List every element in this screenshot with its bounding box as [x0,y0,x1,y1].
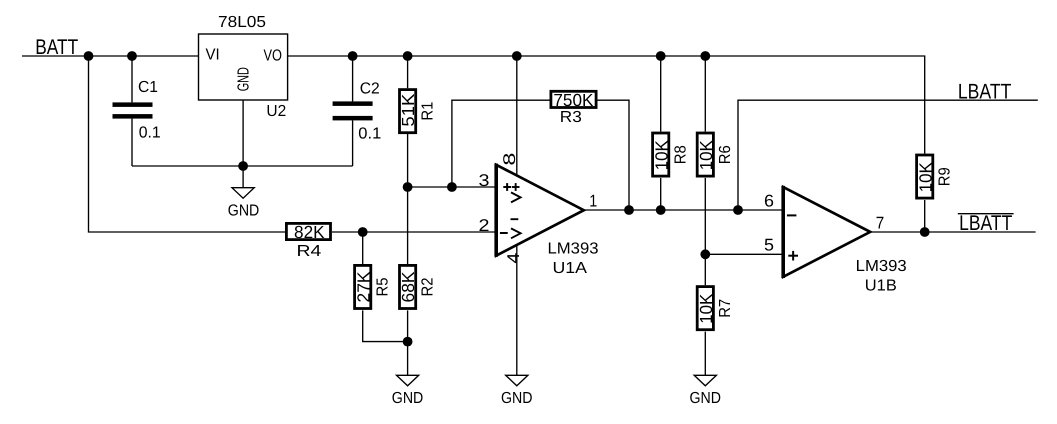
node pin5 junction [700,249,710,259]
node C2 top junction [348,51,358,61]
wire R1 top lead [407,56,409,88]
svg-text:GND: GND [228,202,259,219]
ground symbol under U1A pin 4 [506,375,528,386]
node ground rail junction [238,161,248,171]
wire R7 bottom lead to GND [704,332,706,376]
wire R6 bottom lead crossing output rail [704,178,706,254]
svg-text:5: 5 [764,236,774,255]
svg-text:10K: 10K [915,162,935,192]
wire R7 top lead [704,254,706,285]
wire R5 bottom lead [363,310,408,341]
svg-text:2: 2 [479,216,490,235]
wire C1 top lead [131,56,133,102]
regulator U2 box [199,34,288,100]
svg-text:LM393: LM393 [856,258,907,275]
svg-text:10K: 10K [696,293,716,323]
ground symbol under U2 [232,188,254,199]
svg-text:1: 1 [589,192,597,211]
svg-text:LM393: LM393 [548,240,599,257]
svg-text:R8: R8 [672,145,689,164]
U1B plus input marker [788,251,798,261]
resistor R1 [400,90,416,133]
wire R9 bottom lead [924,200,926,232]
svg-text:3: 3 [479,171,490,190]
wire LBATT riser and rail [738,100,1038,210]
wire R5 top lead [362,232,364,264]
svg-text:8: 8 [500,153,519,166]
svg-text:R4: R4 [297,243,322,260]
wire ground rail C1 to C2 [132,165,353,167]
svg-text:R7: R7 [717,299,734,318]
wire BATT rail left segment [22,55,199,57]
svg-text:78L05: 78L05 [218,14,266,31]
node A junction R1/R2 [403,182,413,192]
svg-text:C2: C2 [360,81,380,98]
svg-text:VI: VI [206,47,220,64]
svg-text:R9: R9 [936,167,953,186]
svg-text:R3: R3 [560,109,582,126]
svg-text:R6: R6 [717,145,734,164]
svg-text:LBATT: LBATT [959,211,1012,235]
wire C1 bottom lead [131,119,133,166]
U1B minus input marker [787,214,797,216]
wire U1A pin 8 riser [516,56,518,176]
svg-text:27K: 27K [353,271,373,302]
svg-text:BATT: BATT [35,35,78,59]
ground symbol under R2/R5 [397,375,419,386]
node R5/R2 bottom junction [403,337,413,347]
resistor R9 [917,155,933,198]
U1A minus input marker [500,232,508,234]
wire R1 bottom lead to node A [407,134,409,187]
op-amp U1B triangle [783,187,870,277]
svg-text:68K: 68K [398,271,418,302]
node feedback junction [447,182,457,192]
svg-text:10K: 10K [696,140,716,170]
node BATT branch junction [84,51,94,61]
node LBATT riser junction [733,205,743,215]
node pin7 R9 junction [920,227,930,237]
wire R3 right to output rail [597,100,629,210]
svg-text:C1: C1 [138,79,158,96]
svg-text:GND: GND [392,390,424,407]
wire R2 bottom lead to GND [407,310,409,375]
node R3 output junction [624,205,634,215]
node R5 top junction [358,227,368,237]
svg-text:R1: R1 [419,102,436,121]
resistor R8 [653,133,669,176]
svg-text:4: 4 [504,253,523,264]
svg-text:0.1: 0.1 [139,125,161,142]
svg-text:6: 6 [764,192,774,211]
wire R6 top lead [704,56,706,132]
node C1 top junction [127,51,137,61]
wire node A to U1A pin 3 [408,186,496,188]
resistor R6 [697,133,713,176]
svg-text:VO: VO [264,47,283,64]
wire R8 top lead [660,56,662,132]
svg-text:R5: R5 [374,277,391,296]
node pin8 riser junction [512,51,522,61]
svg-text:0.1: 0.1 [358,126,381,143]
svg-text:U2: U2 [266,103,286,120]
wire R2 riser crossing pin2 wire [407,187,409,264]
ground symbol under R7 [694,375,716,386]
wire U1A pin 4 lead to GND [516,245,518,375]
wire pin5 node to U1B pin 5 [705,253,783,255]
U1A plus input marker [503,183,511,191]
svg-text:U1A: U1A [553,260,588,277]
resistor R5 [355,265,371,308]
svg-text:82K: 82K [294,222,325,242]
capacitor C1 [113,102,153,118]
svg-text:10K: 10K [651,140,671,170]
svg-text:LBATT: LBATT [958,79,1012,103]
svg-text:51K: 51K [398,93,418,126]
wire R8 bottom lead [660,178,662,210]
svg-text:750K: 750K [553,90,593,110]
svg-text:R2: R2 [419,277,436,296]
node R8 top junction [656,51,666,61]
wire R4 to U1A pin 2 [332,231,496,233]
wire feedback riser to R3 [452,100,550,187]
U1A V- power label rotated [511,219,521,238]
op-amp U1A triangle [496,165,584,256]
resistor R4 [286,223,330,239]
capacitor C2 [333,101,373,120]
wire 5V rail from U2 VO to right corner [288,56,925,154]
svg-text:7: 7 [876,214,885,233]
wire BATT branch down-left [89,56,286,232]
U1A V+ power label rotated [511,183,521,202]
wire U1A output rail to U1B pin 6 [584,209,783,211]
svg-text:GND: GND [501,390,533,407]
svg-text:U1B: U1B [865,278,897,295]
resistor R2 [400,265,416,308]
svg-text:GND: GND [690,390,722,407]
resistor R3 [551,91,596,107]
wire U1B pin 7 output rail [870,231,1035,233]
node R1 top junction [403,51,413,61]
wire U2 GND pin lead [242,100,244,188]
svg-text:GND: GND [235,67,252,91]
wire C2 bottom lead [352,120,354,166]
resistor R7 [697,287,713,330]
node R6 top junction [700,51,710,61]
node R8 bottom junction [656,205,666,215]
wire C2 top lead [352,56,354,101]
